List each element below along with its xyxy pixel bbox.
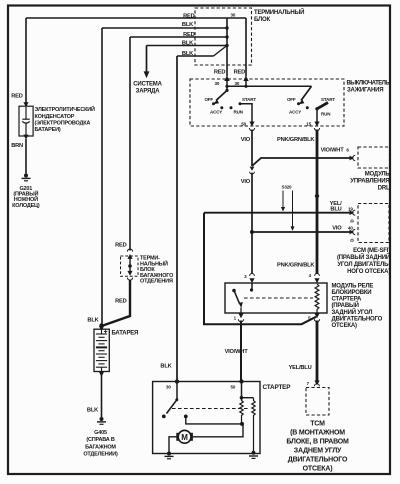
svg-text:VIO/WHT: VIO/WHT <box>321 147 345 153</box>
svg-text:ЗАДНЕМ УГЛУ: ЗАДНЕМ УГЛУ <box>294 447 342 454</box>
wire W5 BLK vertical to starter <box>160 56 177 382</box>
wire PNK/GRN/BLK thick vertical <box>316 130 319 275</box>
ignition switch box (ВЫКЛЮЧАТЕЛЬ ЗАЖИГАНИЯ) <box>190 79 390 126</box>
sw1 contacts <box>212 102 215 105</box>
svg-text:RED: RED <box>234 70 246 76</box>
junction dots on bus <box>225 26 228 29</box>
svg-text:ДВИГАТЕЛЬНОГО: ДВИГАТЕЛЬНОГО <box>288 456 348 463</box>
svg-text:(СПРАВА В: (СПРАВА В <box>86 437 115 443</box>
battery connector arrow <box>99 326 104 331</box>
svg-text:G405: G405 <box>94 430 107 436</box>
svg-text:PNK/GRN/BLK: PNK/GRN/BLK <box>277 262 315 268</box>
svg-text:БЛОКИРОВКИ: БЛОКИРОВКИ <box>332 290 372 296</box>
starter box (СТАРТЕР) <box>153 382 292 454</box>
svg-text:VIO/WHT: VIO/WHT <box>225 349 249 355</box>
svg-text:M: M <box>181 433 188 442</box>
svg-text:СИСТЕМА: СИСТЕМА <box>133 81 162 87</box>
ignition sw2 feed stub <box>235 81 248 88</box>
svg-text:ЗАРЯДА: ЗАРЯДА <box>136 88 161 94</box>
wire W2 BLK vertical to battery <box>87 28 102 326</box>
starter switch output contact <box>184 415 242 424</box>
svg-text:30: 30 <box>166 385 171 390</box>
sw2 position labels <box>287 97 335 117</box>
svg-text:ЭЛЕКТРОЛИТИЧЕСКИЙ: ЭЛЕКТРОЛИТИЧЕСКИЙ <box>35 105 96 113</box>
TCM box <box>286 388 349 473</box>
wire BRN capacitor to ground <box>11 135 28 174</box>
wire W2 BLK top <box>102 22 227 28</box>
VIO/WHT label and pin 6 <box>321 147 356 160</box>
wire RED trunk block to battery <box>103 280 130 326</box>
svg-text:ЗАЖИГАНИЯ: ЗАЖИГАНИЯ <box>347 88 383 94</box>
trunk terminal block (ТЕРМИНАЛЬНЫЙ БЛОК БАГАЖНОГО ОТДЕЛЕНИЯ) <box>121 254 175 285</box>
wire between switches <box>227 85 312 87</box>
svg-text:БАТАРЕИ): БАТАРЕИ) <box>35 127 61 133</box>
svg-text:15: 15 <box>306 121 311 126</box>
svg-text:TCM: TCM <box>310 420 325 427</box>
svg-text:КОНДЕНСАТОР: КОНДЕНСАТОР <box>35 114 75 120</box>
svg-text:(ПРАВЫЙ ЗАДНИЙ: (ПРАВЫЙ ЗАДНИЙ <box>337 253 390 261</box>
junction dot solenoid/motor <box>240 422 244 426</box>
svg-text:МОДУЛЬ: МОДУЛЬ <box>365 171 391 177</box>
relay pin 3 connector <box>244 274 254 284</box>
svg-text:УПРАВЛЕНИЯ: УПРАВЛЕНИЯ <box>350 178 389 184</box>
terminal block bus 1 <box>227 13 236 77</box>
sw2 START lever thick <box>315 103 328 111</box>
starter pin 30 <box>166 379 179 389</box>
svg-text:BLK: BLK <box>160 363 172 369</box>
sw1 position labels <box>204 97 256 114</box>
svg-text:BLU: BLU <box>330 206 341 212</box>
svg-text:ОТСЕКА): ОТСЕКА) <box>303 465 333 472</box>
relay switch lever <box>232 289 243 313</box>
starter solenoid hold-in winding <box>252 398 255 453</box>
svg-text:ACCY: ACCY <box>289 109 301 114</box>
wire <box>245 18 247 77</box>
svg-text:RED: RED <box>11 94 23 100</box>
svg-text:БАГАЖНОМ: БАГАЖНОМ <box>85 444 116 450</box>
wire W5 BLK top <box>177 51 214 57</box>
starter lockout relay module box (МОДУЛЬ РЕЛЕ БЛОКИРОВКИ СТАРТЕРА) <box>225 283 383 329</box>
svg-text:(ЭЛЕКТРОПРОВОДКА: (ЭЛЕКТРОПРОВОДКА <box>35 120 91 126</box>
svg-text:START: START <box>242 97 256 102</box>
svg-text:DRL: DRL <box>378 185 390 191</box>
svg-text:OFF: OFF <box>204 97 213 102</box>
svg-text:START: START <box>321 97 335 102</box>
svg-text:НАЛЬНЫЙ: НАЛЬНЫЙ <box>140 259 168 267</box>
svg-text:VIO: VIO <box>241 137 251 143</box>
svg-text:50: 50 <box>241 121 246 126</box>
svg-text:ЗАДНИЙ УГОЛ: ЗАДНИЙ УГОЛ <box>332 308 373 316</box>
sw2 lever <box>298 86 311 104</box>
junction dot on PNK wire <box>315 194 319 198</box>
svg-text:19: 19 <box>348 206 353 211</box>
svg-text:50: 50 <box>231 385 236 390</box>
svg-text:VIO: VIO <box>241 179 251 185</box>
starter switch <box>162 382 178 419</box>
svg-text:BLK: BLK <box>182 22 194 28</box>
sw2 contacts <box>297 102 300 105</box>
svg-text:КОЛОДЕЦ): КОЛОДЕЦ) <box>12 203 40 209</box>
svg-text:BLK: BLK <box>182 51 194 57</box>
electrolytic capacitor (ЭЛЕКТРОЛИТИЧЕСКИЙ КОНДЕНСАТОР) <box>19 105 95 136</box>
svg-text:BLK: BLK <box>87 317 99 323</box>
svg-text:БАТАРЕЯ: БАТАРЕЯ <box>112 331 139 337</box>
relay pin 5 connector <box>308 313 319 322</box>
relay coil <box>315 284 319 313</box>
ground G405 <box>83 417 118 458</box>
wire VIO vertical <box>251 130 253 167</box>
starter solenoid pull-in winding <box>240 398 243 424</box>
relay mechanical link dashed <box>244 297 313 299</box>
relay pin 1 connector <box>234 313 244 322</box>
svg-text:BRN: BRN <box>11 143 23 149</box>
ignition sw1 feed <box>215 81 229 92</box>
svg-text:СТАРТЕРА: СТАРТЕРА <box>332 297 362 303</box>
svg-text:S320: S320 <box>282 185 293 190</box>
wire BLK battery to ground <box>87 372 104 417</box>
svg-text:БЛОК: БЛОК <box>254 17 270 23</box>
starter solenoid feed <box>240 382 254 400</box>
sw1 lever <box>213 90 227 104</box>
wire YEL/BLU left path down to relay pin 5 <box>204 213 316 325</box>
charging system arrow (СИСТЕМА ЗАРЯДА) <box>133 46 162 95</box>
TCM connector pin 7 <box>307 381 320 387</box>
svg-text:ECM (ME-SFI): ECM (ME-SFI) <box>353 248 390 254</box>
svg-text:30: 30 <box>231 13 236 18</box>
starter ground right <box>249 451 258 459</box>
motor right wire to solenoid junction <box>193 425 243 437</box>
relay pin 4 connector <box>309 273 320 283</box>
svg-text:СТАРТЕР: СТАРТЕР <box>263 384 292 391</box>
svg-text:RUN: RUN <box>234 109 243 114</box>
svg-text:ДВИГАТЕЛЬНОГО: ДВИГАТЕЛЬНОГО <box>332 316 383 322</box>
wire YEL/BLU horizontal to ECM 19 <box>204 201 355 222</box>
connector arrow pin 30 #2 <box>243 76 248 81</box>
terminal block box <box>195 8 304 65</box>
sw1 START to pin 50 <box>240 104 255 131</box>
svg-text:30: 30 <box>215 81 220 86</box>
svg-text:ОТСЕКА): ОТСЕКА) <box>332 323 357 329</box>
svg-text:30: 30 <box>235 81 240 86</box>
svg-text:BLK: BLK <box>87 408 99 414</box>
battery (БАТАРЕЯ) <box>94 329 138 371</box>
svg-text:OFF: OFF <box>287 97 296 102</box>
inline connector on VIO wire <box>250 167 255 174</box>
wire W3 RED top <box>130 32 227 38</box>
svg-text:МОДУЛЬ РЕЛЕ: МОДУЛЬ РЕЛЕ <box>332 283 374 289</box>
svg-text:ТЕРМИНАЛЬНЫЙ: ТЕРМИНАЛЬНЫЙ <box>254 8 304 16</box>
sw2 pin 15 <box>306 109 319 131</box>
wire diagonal W5 to bus <box>214 46 228 57</box>
wire VIO horizontal to ECM 40 <box>250 226 355 242</box>
svg-text:BLK: BLK <box>182 41 194 47</box>
ECM box <box>337 204 390 276</box>
svg-text:VIO: VIO <box>332 226 342 232</box>
svg-text:RUN: RUN <box>321 112 330 117</box>
starter motor <box>178 430 192 443</box>
junction dot battery positive <box>99 323 103 327</box>
svg-text:ВЫКЛЮЧАТЕЛЬ: ВЫКЛЮЧАТЕЛЬ <box>347 81 391 87</box>
svg-text:RED: RED <box>183 13 195 19</box>
wire YEL/BLU thick relay pin5 to TCM <box>289 321 317 382</box>
svg-text:(ПРАВЫЙ: (ПРАВЫЙ <box>332 301 359 309</box>
wire W3 RED vertical to trunk terminal block <box>115 37 133 252</box>
connector arrow pin 30 #1 <box>224 76 229 81</box>
svg-text:RED: RED <box>115 298 127 304</box>
wire W1 RED top <box>26 13 246 19</box>
splice S320 label and arrows <box>281 185 295 231</box>
svg-text:YEL/BLU: YEL/BLU <box>289 365 312 371</box>
ground G201 <box>12 174 40 209</box>
svg-text:ОТДЕЛЕНИЯ: ОТДЕЛЕНИЯ <box>140 279 173 285</box>
svg-text:RED: RED <box>214 70 226 76</box>
relay contact feed <box>250 283 253 292</box>
wire VIO/WHT relay pin1 to starter 50 <box>225 321 249 382</box>
svg-text:БЛОКЕ, В ПРАВОМ: БЛОКЕ, В ПРАВОМ <box>286 438 349 445</box>
svg-text:УГОЛ ДВИГАТЕЛЬ-: УГОЛ ДВИГАТЕЛЬ- <box>337 262 390 268</box>
svg-text:RED: RED <box>183 32 195 38</box>
svg-text:PNK/GRN/BLK: PNK/GRN/BLK <box>277 137 315 143</box>
svg-text:НОГО ОТСЕКА): НОГО ОТСЕКА) <box>347 269 390 275</box>
starter pin 50 <box>231 379 244 389</box>
wire VIO continues to relay pin 3 <box>251 173 253 274</box>
svg-text:RED: RED <box>115 242 127 248</box>
wire VIO/WHT branch to DRL <box>252 158 352 166</box>
motor left wire to ground <box>165 437 177 459</box>
wire W1 RED vertical to capacitor <box>11 18 28 107</box>
svg-text:ОТДЕЛЕНИИ): ОТДЕЛЕНИИ) <box>83 452 118 458</box>
wire W4 BLK top <box>147 41 228 47</box>
DRL module box (МОДУЛЬ УПРАВЛЕНИЯ DRL) <box>350 147 390 191</box>
svg-text:40: 40 <box>348 226 353 231</box>
svg-text:(В МОНТАЖНОМ: (В МОНТАЖНОМ <box>290 429 345 436</box>
starter mechanical link dashed <box>172 408 250 410</box>
svg-text:ACCY: ACCY <box>210 109 222 114</box>
